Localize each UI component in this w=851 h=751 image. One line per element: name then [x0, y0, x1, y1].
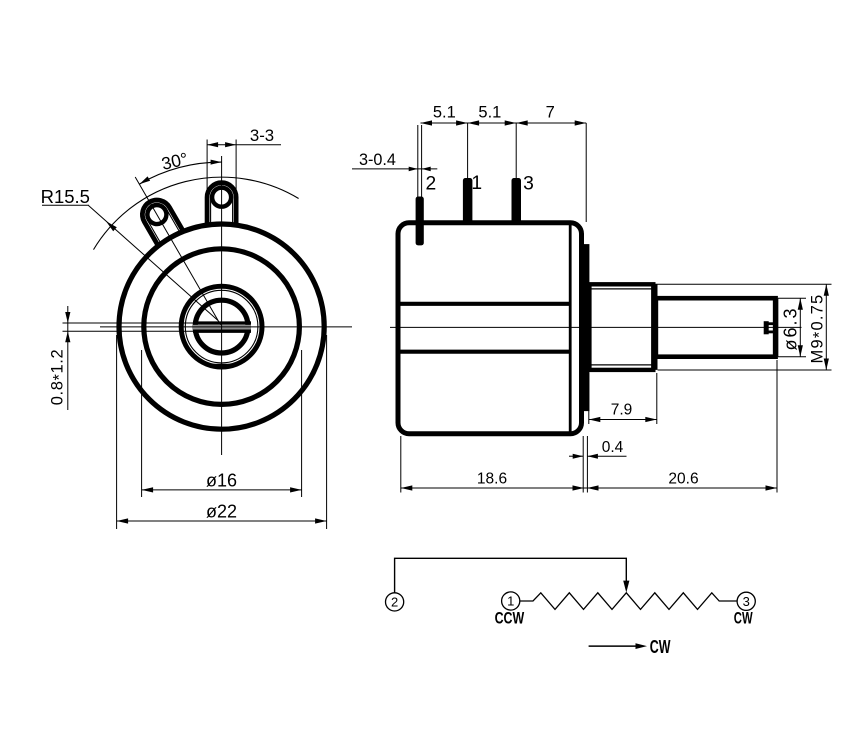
svg-text:20.6: 20.6 — [668, 470, 698, 487]
svg-text:2: 2 — [391, 595, 398, 610]
svg-text:0.8*1.2: 0.8*1.2 — [49, 349, 69, 406]
svg-text:5.1: 5.1 — [478, 104, 501, 122]
svg-text:5.1: 5.1 — [433, 104, 456, 122]
svg-text:ø6.3: ø6.3 — [781, 306, 801, 350]
svg-text:7: 7 — [546, 104, 555, 122]
svg-text:18.6: 18.6 — [477, 470, 507, 487]
svg-text:ø16: ø16 — [206, 471, 237, 491]
svg-text:1: 1 — [507, 594, 514, 609]
svg-text:3-0.4: 3-0.4 — [359, 151, 396, 169]
svg-text:2: 2 — [426, 173, 437, 194]
svg-text:R15.5: R15.5 — [41, 186, 90, 207]
svg-text:3: 3 — [523, 173, 534, 194]
svg-text:ø22: ø22 — [206, 502, 237, 522]
svg-text:0.4: 0.4 — [602, 439, 624, 456]
svg-text:CW: CW — [650, 636, 671, 657]
svg-text:CCW: CCW — [495, 609, 525, 628]
svg-text:3: 3 — [743, 594, 750, 609]
svg-text:1: 1 — [471, 173, 482, 194]
svg-text:7.9: 7.9 — [611, 402, 633, 419]
svg-text:M9*0.75: M9*0.75 — [809, 294, 829, 364]
svg-text:CW: CW — [734, 609, 753, 628]
svg-text:3-3: 3-3 — [250, 126, 274, 145]
